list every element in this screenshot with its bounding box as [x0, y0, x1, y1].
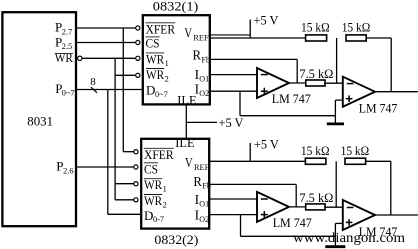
svg-text:2: 2	[163, 200, 167, 209]
svg-text:O2: O2	[199, 215, 209, 224]
wire RFb(2) feedback to A3 output	[210, 184, 296, 207]
wire feedback from A2 output up to R2	[390, 38, 392, 92]
wire A2 output Vout1	[375, 91, 418, 93]
wire IO1(2) to A3 inverting input	[210, 198, 257, 200]
IC U3 DAC 0832(2) box	[141, 139, 209, 247]
resistor R4 15 kOhm	[341, 143, 370, 164]
svg-text:LM 747: LM 747	[359, 101, 398, 116]
svg-text:REF: REF	[194, 163, 210, 172]
wire P2.5 to CS(1)	[77, 42, 136, 44]
resistor R3 15 kOhm	[301, 143, 330, 164]
inversion bubble CS(2)	[134, 165, 138, 169]
pin label WR1 (0832-2)	[144, 177, 167, 194]
svg-text:XFER: XFER	[144, 147, 174, 162]
svg-text:V: V	[185, 155, 193, 170]
pin label IO2 (0832-2)	[195, 207, 209, 224]
wire R5 to A2 inverting input	[325, 82, 343, 84]
pin label P2.6 (8031)	[56, 159, 73, 176]
svg-text:LM 747: LM 747	[273, 215, 312, 230]
pin label P2.5 (8031)	[55, 34, 72, 51]
power +5V tick (bottom)	[249, 143, 251, 161]
svg-text:Fb: Fb	[202, 55, 210, 64]
wire A4 output Vout2	[375, 214, 418, 216]
wire analog ground rail (top)	[240, 115, 335, 117]
pin label D0-7 (0832-2)	[144, 208, 164, 224]
svg-text:7.5 kΩ: 7.5 kΩ	[299, 190, 333, 205]
svg-text:www.diangon.com: www.diangon.com	[293, 230, 406, 245]
wire branch to WR2(2)	[115, 199, 134, 201]
svg-text:15 kΩ: 15 kΩ	[301, 20, 330, 35]
inversion bubble CS(1)	[136, 40, 140, 44]
wire vertical branch data bus down to D0~7(2)	[108, 90, 140, 215]
svg-text:2.6: 2.6	[63, 166, 73, 175]
wire R6 to A4 inverting input	[325, 206, 343, 208]
IC U2 DAC 0832(1) box	[143, 0, 210, 104]
svg-text:WR: WR	[55, 50, 73, 65]
svg-text:15 kΩ: 15 kΩ	[342, 20, 371, 35]
wire vertical branch WR down	[114, 58, 116, 200]
IC U1 8031 microcontroller box	[2, 12, 76, 226]
op-amp A3 LM747 (first half)	[257, 192, 312, 230]
wire RFb(1) feedback to A1 output	[210, 59, 297, 83]
svg-text:WR: WR	[146, 67, 164, 82]
wire P2.7 to XFER(1)	[77, 27, 136, 29]
pin label WR2 (0832-2)	[144, 193, 167, 210]
svg-text:8: 8	[90, 76, 96, 88]
pin label IO2 (0832-1)	[195, 82, 209, 99]
svg-text:WR: WR	[146, 51, 164, 66]
resistor R5 7.5 kOhm	[299, 66, 333, 86]
wire R2 to feedback node	[366, 37, 391, 39]
svg-text:1: 1	[163, 185, 167, 194]
wire A1 output to R5	[289, 82, 306, 84]
svg-text:15 kΩ: 15 kΩ	[341, 143, 370, 158]
wire VREF(1) pin stub to +5V	[211, 34, 250, 36]
pin label P0~7 (8031 data bus)	[55, 81, 74, 98]
wire IO2(2) to A3 non-inverting input	[210, 214, 257, 216]
pin label RFb (0832-2)	[193, 174, 210, 191]
inversion bubble XFER(2)	[134, 150, 138, 154]
wire A3 output to R6	[289, 206, 306, 208]
resistor R6 7.5 kOhm	[299, 190, 333, 210]
wire data bus P0~7 to D0~7(1)	[77, 89, 142, 91]
svg-text:O1: O1	[199, 75, 209, 84]
inversion bubble on 8031 WR output	[78, 56, 82, 60]
ground symbol (top)	[327, 123, 344, 126]
inversion bubble WR2(2)	[134, 198, 138, 202]
svg-text:R: R	[193, 48, 202, 63]
svg-text:D: D	[146, 83, 155, 98]
svg-text:0832(2): 0832(2)	[154, 232, 198, 247]
resistor R1 15 kOhm	[301, 20, 330, 41]
pin label WR (8031, active low)	[55, 50, 73, 65]
svg-text:ILE: ILE	[175, 135, 194, 150]
pin label CS (0832-1)	[145, 35, 159, 50]
wire P2.6 to CS(2)	[77, 166, 134, 168]
svg-text:+5 V: +5 V	[254, 137, 280, 152]
svg-text:CS: CS	[146, 35, 160, 50]
wire R1-R2 junction down to op-amp A2 inverting input	[336, 38, 338, 83]
wire WR to WR1(1)	[82, 57, 136, 59]
svg-text:O2: O2	[199, 89, 209, 98]
pin label D0~7 (0832-1)	[146, 83, 168, 99]
wire vertical branch P2.7 down to XFER(2)	[123, 28, 133, 152]
wire branch to WR1(2)	[115, 183, 134, 185]
svg-text:0-7: 0-7	[153, 215, 164, 224]
wire ground tap from IO2(2) node	[240, 215, 242, 237]
svg-text:+5 V: +5 V	[254, 12, 280, 27]
inversion bubble WR1(2)	[134, 182, 138, 186]
op-amp A4 LM747 (second half)	[343, 200, 398, 239]
svg-text:REF: REF	[193, 34, 209, 43]
svg-text:1: 1	[165, 59, 169, 68]
wire ground tap from IO2 node	[239, 91, 241, 116]
svg-text:Fb: Fb	[202, 182, 210, 191]
wire A2 non-inverting input to ground rail	[335, 100, 342, 123]
op-amp A2 LM747 (second half)	[343, 77, 398, 116]
svg-text:O1: O1	[199, 200, 209, 209]
svg-text:8031: 8031	[27, 113, 53, 128]
power +5V tick (top)	[249, 20, 251, 39]
svg-text:XFER: XFER	[146, 21, 176, 36]
pin label WR2 (0832-1)	[146, 67, 169, 84]
svg-text:2.7: 2.7	[62, 27, 72, 36]
svg-text:CS: CS	[144, 161, 158, 176]
pin label IO1 (0832-1)	[195, 67, 209, 84]
svg-text:WR: WR	[144, 193, 162, 208]
pin label VREF (0832-1)	[184, 26, 209, 43]
pin label XFER (0832-1)	[145, 21, 175, 36]
wire IO2(1) to A1 non-inverting input	[210, 90, 257, 92]
ground symbol (bottom)	[325, 245, 345, 248]
inversion bubble WR2(1)	[136, 73, 140, 77]
svg-text:D: D	[144, 208, 153, 223]
svg-text:7.5 kΩ: 7.5 kΩ	[299, 66, 333, 81]
svg-text:+5 V: +5 V	[219, 115, 245, 130]
wire VREF(2) to resistor network	[210, 160, 305, 162]
inversion bubble WR1(1)	[136, 56, 140, 60]
svg-text:V: V	[184, 26, 192, 41]
svg-text:LM 747: LM 747	[272, 91, 311, 106]
pin label CS (0832-2)	[144, 161, 158, 176]
wire VREF(1) to resistor network	[210, 37, 306, 39]
pin label XFER (0832-2)	[144, 147, 174, 162]
wire ILE(1) to ILE(2)	[185, 105, 187, 139]
svg-text:2: 2	[165, 74, 169, 83]
svg-text:0~7: 0~7	[62, 89, 75, 98]
wire IO1(1) to A1 inverting input	[210, 74, 257, 76]
pin label RFb (0832-1)	[193, 48, 210, 65]
pin label WR1 (0832-1)	[146, 51, 169, 68]
op-amp A1 LM747 (first half)	[257, 68, 311, 106]
inversion bubble XFER(1)	[136, 26, 140, 30]
wire A4 non-inverting input to ground rail	[335, 223, 342, 245]
wire R3-R4 junction down to op-amp A4 inverting input	[335, 161, 337, 207]
resistor R2 15 kOhm	[342, 20, 371, 41]
svg-text:0~7: 0~7	[155, 90, 168, 99]
wire R4 to feedback node	[366, 160, 391, 162]
wire branch to WR2(1)	[115, 74, 136, 76]
svg-text:0832(1): 0832(1)	[153, 0, 199, 14]
bus width marker slash	[91, 87, 97, 93]
pin label IO1 (0832-2)	[195, 192, 209, 209]
svg-text:R: R	[193, 174, 202, 189]
pin label VREF (0832-2)	[185, 155, 210, 172]
wire feedback from A4 output up to R4	[390, 161, 392, 215]
svg-text:15 kΩ: 15 kΩ	[301, 143, 330, 158]
wire ILE node to +5V	[186, 121, 217, 123]
pin label P2.7 (8031)	[55, 20, 72, 37]
svg-text:WR: WR	[144, 177, 162, 192]
wire analog ground rail (bottom)	[241, 235, 336, 237]
